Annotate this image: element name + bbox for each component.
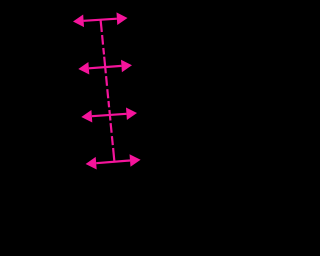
arrow 3 (81, 108, 137, 123)
arrow 2 (78, 60, 132, 75)
arrow 1 (top double-headed arrow) (73, 12, 128, 27)
arrow 4 (bottom double-headed arrow) (86, 154, 141, 169)
wire: slanted vertical dashed connector line with junction stubs (101, 19, 115, 161)
